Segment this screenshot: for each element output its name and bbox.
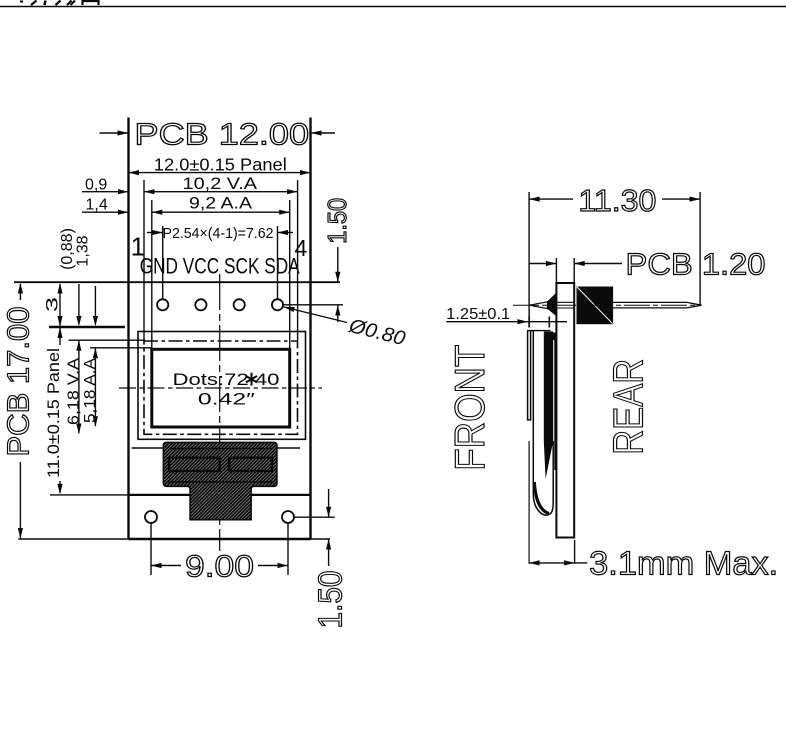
svg-text:6,18 V.A: 6,18 V.A [66, 358, 83, 425]
svg-text:FRONT: FRONT [446, 345, 493, 471]
panel top stub line (thick) [49, 326, 125, 329]
mounting hole left [145, 511, 157, 523]
svg-text:5,18 A.A: 5,18 A.A [82, 358, 99, 423]
svg-text:PCB 1.20: PCB 1.20 [626, 247, 766, 282]
connector inner lines [170, 448, 272, 450]
pin header plastic (black square) [577, 287, 614, 325]
PCB bottom edge with extensions [18, 538, 330, 540]
stack layer glass [533, 331, 553, 516]
pin extension lines [162, 226, 164, 299]
svg-text:P2.54×(4-1)=7.62: P2.54×(4-1)=7.62 [163, 226, 274, 242]
mounting hole right [282, 511, 294, 523]
svg-text:12.0±0.15 Panel: 12.0±0.15 Panel [154, 155, 287, 175]
connector inner rect left [169, 458, 220, 471]
FPC connector hatched body [163, 442, 277, 519]
PCB outline left edge [127, 118, 129, 540]
pin needle left tip [529, 302, 547, 309]
pin hole 4 [272, 299, 283, 310]
PCB step line (panel bottom) [50, 494, 311, 496]
pin needle right [613, 302, 701, 308]
svg-text:0,9: 0,9 [85, 177, 107, 194]
front glass stack top edge [527, 330, 551, 332]
stack layer outer polarizer [528, 331, 531, 420]
pin centerline dash-dot [513, 304, 699, 306]
svg-text:Dots:72 40: Dots:72 40 [173, 371, 280, 389]
svg-text:1.50: 1.50 [322, 198, 352, 244]
mounting hole row extension right [294, 516, 335, 518]
connector inner rect right [229, 458, 272, 471]
svg-text:3: 3 [43, 297, 62, 312]
svg-text:10,2 V.A: 10,2 V.A [183, 174, 258, 193]
svg-text:11.30: 11.30 [578, 183, 656, 218]
svg-text:1.50: 1.50 [312, 571, 349, 629]
svg-text:REAR: REAR [605, 359, 652, 455]
pin hole 1 [157, 299, 168, 310]
pin hole 2 [195, 299, 206, 310]
stack inner line [554, 340, 556, 470]
svg-text:9.00: 9.00 [185, 549, 254, 584]
A.A thick rect (display window) [152, 349, 290, 427]
pin hole 3 [234, 299, 245, 310]
stack inner black sliver [544, 332, 553, 480]
stack fpc curl (dark band) [534, 482, 549, 514]
mounting hole extension lines down [150, 524, 152, 576]
svg-text:PCB 12.00: PCB 12.00 [135, 117, 310, 152]
11.30 extension lines [528, 192, 530, 327]
svg-text:9,2 A.A: 9,2 A.A [189, 194, 253, 213]
top edge cropped marks [0, 1, 786, 7]
PCB top line / panel top [14, 281, 340, 283]
svg-text:1,4: 1,4 [86, 197, 108, 214]
V.A extension lines top [143, 180, 145, 341]
svg-text:11.0±0.15 Panel: 11.0±0.15 Panel [45, 348, 63, 478]
V.A top stub [69, 339, 146, 341]
svg-text:3.1mm Max.: 3.1mm Max. [589, 545, 778, 582]
PCB side bar [556, 283, 574, 538]
vertical centerline [219, 274, 221, 551]
PCB outline right edge [309, 118, 311, 540]
extension line for 3.1 right [574, 540, 576, 564]
svg-text:PCB 17.00: PCB 17.00 [1, 307, 36, 457]
horizontal centerline stubs [119, 387, 322, 389]
svg-text:(0,88): (0,88) [59, 228, 76, 270]
PCB thickness extension lines [555, 258, 557, 283]
leader and label Ø0.80 [284, 307, 347, 323]
svg-text:1.25±0.1: 1.25±0.1 [446, 306, 510, 323]
pin row extension to right [284, 304, 343, 306]
pin needle through bar [557, 301, 575, 303]
A.A extension lines top [151, 200, 153, 350]
extension line for 3.1 left [528, 441, 530, 564]
solder wedge (black) [543, 292, 557, 316]
panel glass bottom stubs [132, 447, 164, 449]
svg-text:0.42″: 0.42″ [198, 390, 255, 408]
A.A top stub [90, 347, 152, 349]
polarizer outline rect [138, 332, 306, 440]
V.A dash-dot rect [144, 341, 298, 434]
stack small black block [551, 333, 557, 340]
svg-text:1,38: 1,38 [75, 235, 92, 266]
dim 3.1mm Max. [529, 562, 575, 564]
